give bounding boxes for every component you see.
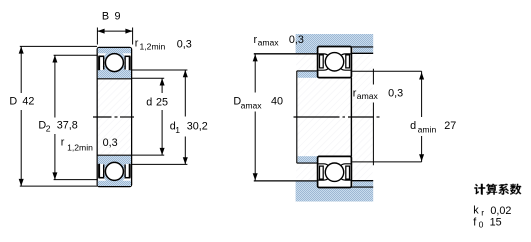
right bearing seals (top): [320, 55, 350, 68]
svg-text:0,02: 0,02: [490, 205, 511, 217]
svg-text:30,2: 30,2: [187, 121, 208, 133]
svg-text:2: 2: [46, 124, 51, 134]
dimension Da max (40): [254, 54, 256, 180]
ball (bottom): [105, 162, 123, 180]
shaft right end face: [372, 69, 374, 165]
right bearing bottom section races and ball: [318, 175, 350, 180]
svg-text:amax: amax: [258, 37, 280, 47]
svg-text:9: 9: [115, 10, 121, 22]
shaft shoulder left (housing side, bottom): [296, 181, 318, 188]
dimension da min (27): [352, 71, 422, 162]
svg-text:0: 0: [479, 220, 484, 230]
right bearing right edge through bore: [350, 78, 352, 157]
dimension d1 (shoulder diameter 30,2): [132, 70, 188, 164]
seal right (bottom section): [125, 164, 131, 178]
left bearing top half-section: outer ring (blue): [98, 48, 131, 53]
right bearing top section outline: [318, 47, 352, 78]
dimension d (bore 25): [132, 78, 165, 155]
left bearing top half-section: inner ring (blue): [98, 70, 131, 78]
svg-text:15: 15: [490, 217, 502, 229]
housing shoulder right: [353, 47, 373, 52]
shaft abutment collar left bottom (blue strip): [298, 156, 318, 162]
svg-text:0,3: 0,3: [103, 137, 118, 149]
svg-text:1: 1: [175, 125, 180, 135]
right figure: shaft section (blue band): [296, 187, 374, 201]
ball (top): [105, 54, 123, 72]
dimension D2 (recess diameter 37,8): [54, 55, 98, 179]
right bearing seals (bottom): [320, 166, 350, 179]
seal left (top section): [98, 56, 104, 70]
svg-text:d: d: [410, 120, 416, 132]
svg-text:0,3: 0,3: [177, 38, 192, 50]
left bearing bottom half-section: outer ring (blue): [98, 181, 131, 186]
dimension B (width 9): [97, 28, 132, 45]
right figure interior hatch: [296, 55, 372, 181]
shaft outlines (bottom): [254, 181, 373, 187]
seal right (top section): [125, 56, 131, 70]
right figure centerline: [294, 116, 380, 118]
shaft shoulder right (bottom): [353, 182, 373, 187]
svg-text:37,8: 37,8: [57, 119, 78, 131]
left bearing outline: [97, 47, 131, 186]
svg-text:25: 25: [156, 96, 168, 108]
svg-text:amax: amax: [357, 91, 379, 101]
svg-text:r: r: [481, 208, 484, 218]
svg-text:1,2min: 1,2min: [140, 42, 166, 52]
left figure centerline: [93, 116, 134, 118]
svg-text:0,3: 0,3: [289, 34, 304, 46]
right bearing top section races and ball: [318, 54, 350, 59]
shaft abutment collar left top (blue strip): [298, 71, 318, 77]
svg-text:40: 40: [271, 95, 283, 107]
left bearing bore edge lines: [97, 79, 131, 155]
left bearing bottom half-section: inner ring (blue): [98, 156, 131, 164]
seal left (bottom section): [98, 164, 104, 178]
svg-text:amin: amin: [418, 124, 437, 134]
svg-text:1,2min: 1,2min: [67, 142, 93, 152]
svg-text:amax: amax: [241, 101, 263, 111]
right bearing bottom section outline: [318, 156, 352, 187]
svg-text:d: d: [146, 96, 152, 108]
right figure: housing section (blue band): [296, 34, 374, 47]
svg-text:k: k: [473, 205, 479, 217]
housing shoulder left: [296, 46, 318, 53]
dimension D (outer diameter 42): [20, 46, 97, 186]
svg-text:r: r: [135, 37, 139, 49]
shaft left end face: [296, 71, 298, 163]
svg-text:r: r: [61, 137, 65, 149]
heading: calculation factors (Chinese): [474, 184, 521, 195]
svg-text:27: 27: [444, 120, 456, 132]
svg-text:0,3: 0,3: [388, 87, 403, 99]
housing outlines: [254, 47, 373, 54]
svg-text:B: B: [102, 10, 109, 22]
left bearing bore hatch: [98, 80, 131, 155]
svg-text:D: D: [9, 95, 17, 107]
svg-text:42: 42: [22, 95, 34, 107]
